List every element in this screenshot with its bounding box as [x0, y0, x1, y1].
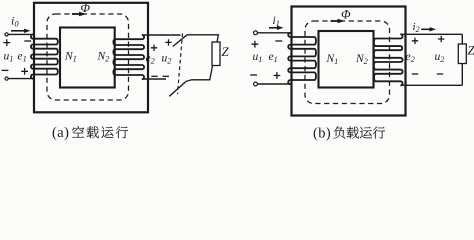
wire primary top (b)	[257, 32, 290, 34]
terminal u1+ (a)	[5, 33, 8, 36]
svg-text:(b): (b)	[313, 126, 331, 142]
polarity - u1 bottom (b)	[250, 74, 257, 76]
load Z box (b)	[458, 44, 466, 64]
svg-text:(a): (a)	[52, 125, 69, 141]
iron core (a) outer edge	[34, 3, 148, 113]
load loop wires (a)	[186, 35, 218, 82]
winding N2 (b) coil	[374, 34, 403, 85]
switch blade top (a)	[173, 35, 187, 47]
current i0 arrow (a)	[11, 30, 26, 32]
flux arrow (b)	[331, 20, 339, 22]
flux loop phi (a)	[47, 14, 129, 100]
winding N1 (a) coil	[31, 35, 58, 79]
svg-text:Φ: Φ	[81, 1, 91, 15]
current i1 arrow (b)	[269, 27, 279, 29]
polarity + e2 (b)	[412, 38, 418, 44]
svg-text:Φ: Φ	[341, 8, 351, 22]
winding N2 (a) coil	[113, 35, 144, 79]
wire secondary top (a)	[142, 34, 181, 36]
iron core (b) window	[319, 31, 374, 88]
svg-text:Z: Z	[468, 43, 474, 58]
polarity - u1 bottom (a)	[2, 69, 9, 71]
wire secondary bottom (b)	[400, 84, 462, 86]
wire primary bottom (b)	[257, 83, 290, 85]
polarity - e2 (b)	[412, 73, 418, 75]
terminal u1+ (b)	[254, 31, 258, 35]
polarity + e2 (a)	[151, 45, 157, 51]
wire primary bottom (a)	[8, 78, 33, 80]
iron core (b) outer edge	[292, 7, 406, 116]
terminal u1- (a)	[5, 77, 8, 80]
polarity + e1 bottom (b)	[274, 72, 281, 79]
iron core (a) window	[60, 28, 115, 88]
winding N1 (b) coil	[288, 33, 316, 84]
open switch dashed line (a)	[178, 34, 183, 95]
polarity - e1 top (a)	[24, 40, 31, 42]
polarity + u1 top (b)	[252, 41, 259, 48]
polarity - e1 top (b)	[275, 40, 282, 42]
load branch right wire (b)	[461, 34, 463, 44]
flux loop phi (b)	[305, 21, 390, 104]
polarity + u1 top (a)	[3, 39, 10, 46]
svg-text:Z: Z	[222, 44, 230, 59]
wire primary top (a)	[8, 33, 33, 35]
wire secondary top (b)	[400, 33, 462, 35]
switch blade bottom (a)	[169, 81, 186, 96]
wire secondary bottom (a)	[142, 78, 166, 80]
polarity + e1 bottom (a)	[21, 68, 28, 75]
flux arrow (a)	[72, 13, 80, 15]
polarity - u2 (a)	[163, 75, 169, 77]
terminal u1- (b)	[254, 82, 258, 86]
polarity - e2 (a)	[151, 75, 157, 77]
current i2 arrow (b)	[421, 28, 431, 30]
polarity + u2 (a)	[165, 39, 171, 45]
polarity + u2 (b)	[438, 36, 444, 42]
polarity - u2 (b)	[437, 73, 443, 75]
load Z box (a)	[212, 42, 220, 66]
